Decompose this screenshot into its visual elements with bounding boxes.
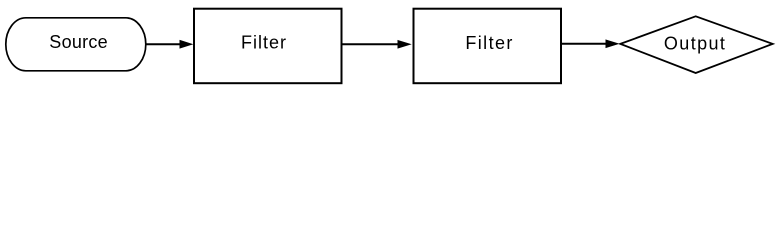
wire arrow 3	[561, 40, 618, 47]
svg-text:Source: Source	[49, 32, 107, 52]
terminator Source	[6, 18, 146, 71]
wire arrow 1	[146, 41, 192, 48]
decision Output	[620, 16, 772, 73]
svg-text:Output: Output	[664, 33, 725, 53]
wire arrow 2	[342, 41, 410, 48]
process Filter 1	[194, 9, 342, 84]
process Filter 2	[414, 9, 562, 84]
svg-text:Filter: Filter	[241, 33, 286, 53]
